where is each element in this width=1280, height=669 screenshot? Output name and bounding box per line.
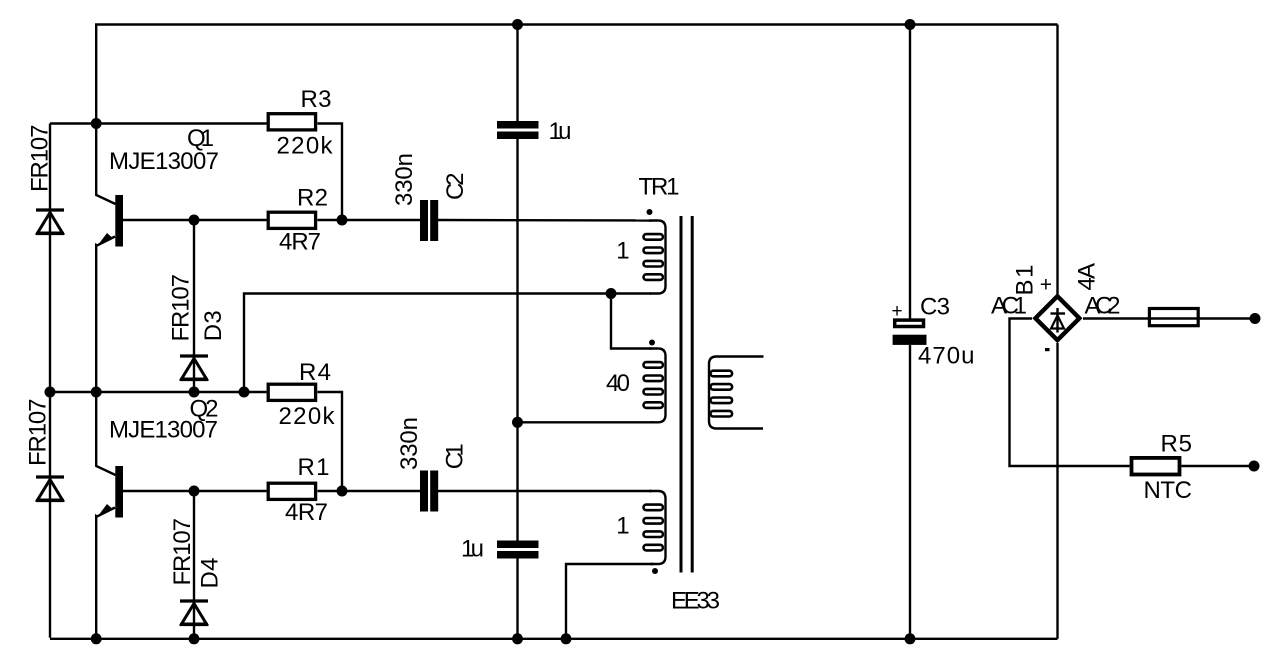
wire Q2 collector vertical	[96, 392, 115, 475]
svg-text:AC2: AC2	[1085, 293, 1121, 320]
wire left diode string vertical	[49, 124, 51, 638]
svg-text:AC1: AC1	[991, 293, 1027, 320]
transistor Q1	[98, 195, 123, 247]
junction R1 / R4	[337, 486, 348, 497]
junction bottom rail / center rail	[512, 633, 523, 644]
svg-text:FR107: FR107	[25, 399, 52, 467]
transformer TR1 winding 1 bottom	[644, 491, 666, 574]
svg-text:C2: C2	[442, 173, 469, 201]
wire R4 left	[244, 391, 267, 393]
junction bottom rail / Q2 emitter	[91, 633, 102, 644]
wire R1 right to C1	[318, 490, 421, 492]
transistor Q2	[98, 466, 123, 518]
wire Q2 emitter vertical	[96, 508, 115, 639]
wire R3 right to R2 right vertical	[318, 124, 343, 221]
junction Q2 base / D4	[189, 486, 200, 497]
wire winding 40 bottom to center rail	[518, 421, 654, 423]
svg-text:R2: R2	[297, 185, 328, 212]
svg-text:TR1: TR1	[639, 174, 680, 201]
wire left vertical to Q1 collector	[96, 24, 115, 205]
svg-text:D4: D4	[197, 558, 224, 589]
svg-text:470u: 470u	[918, 343, 975, 370]
diode D3	[180, 356, 208, 380]
transformer TR1 winding 1 top	[644, 209, 666, 294]
wire R2 right to C2	[318, 219, 421, 221]
svg-text:1: 1	[616, 513, 629, 540]
svg-text:220k: 220k	[277, 133, 334, 160]
junction mid rail / Q2 collector	[91, 387, 102, 398]
terminal dot AC2 output	[1250, 313, 1261, 324]
wire D4 branch vertical	[193, 491, 195, 639]
wire center rail	[516, 25, 518, 122]
junction Q1 base / D3	[189, 215, 200, 226]
svg-text:1u: 1u	[461, 536, 484, 563]
svg-text:220k: 220k	[279, 403, 336, 430]
svg-text:4R7: 4R7	[285, 499, 328, 526]
svg-text:FR107: FR107	[168, 274, 195, 342]
wire top rail	[95, 23, 1058, 25]
junction winding 40 / center rail	[512, 417, 523, 428]
junction mid rail / D3 anode	[189, 387, 200, 398]
transformer TR1 winding 40	[644, 340, 666, 423]
junction primary midpoint	[606, 288, 617, 299]
wire C1 to winding 1 bottom	[438, 490, 652, 492]
wire C3 rail	[909, 25, 911, 319]
junction mid rail / diode string	[45, 387, 56, 398]
junction mid rail / R4 branch	[239, 387, 250, 398]
svg-text:R4: R4	[299, 359, 331, 386]
diode D1 FR107 top-left	[36, 210, 64, 234]
wire primary midpoint horizontal	[244, 294, 651, 393]
junction top rail / C3 rail	[905, 19, 916, 30]
svg-text:40: 40	[606, 370, 630, 397]
resistor R4	[268, 384, 315, 400]
wire Q1 emitter vertical	[96, 237, 115, 393]
diode D4	[180, 601, 208, 625]
svg-text:+: +	[1040, 273, 1052, 296]
transformer TR1 core	[680, 216, 683, 573]
wire D3 branch vertical	[193, 220, 195, 392]
svg-text:1u: 1u	[549, 118, 572, 145]
resistor R2	[268, 212, 315, 228]
wire R4 right vertical to R1 right	[318, 392, 343, 491]
terminal dot R5 output	[1249, 461, 1260, 472]
svg-text:FR107: FR107	[169, 518, 196, 586]
junction R2 / R3	[337, 215, 348, 226]
svg-text:4A: 4A	[1074, 263, 1101, 291]
capacitor 1u top	[497, 121, 539, 129]
svg-text:R1: R1	[298, 454, 330, 481]
svg-text:MJE13007: MJE13007	[109, 417, 218, 444]
wire midpoint to winding 40 top	[611, 294, 652, 349]
junction bottom rail / C3 rail	[905, 633, 916, 644]
wire R5 right	[1182, 465, 1255, 467]
wire winding 1 bottom exit	[566, 564, 653, 639]
capacitor 1u bottom	[497, 541, 539, 549]
svg-text:R5: R5	[1161, 431, 1193, 458]
capacitor C1	[420, 471, 428, 512]
svg-text:330n: 330n	[396, 417, 423, 470]
svg-text:4R7: 4R7	[279, 229, 321, 256]
svg-text:EE33: EE33	[671, 588, 720, 615]
svg-text:MJE13007: MJE13007	[109, 148, 219, 175]
capacitor C2	[420, 200, 428, 241]
resistor R3	[268, 114, 315, 130]
wire bottom rail	[50, 638, 1058, 640]
wire AC2 to fuse terminal	[1083, 317, 1255, 319]
svg-text:+: +	[892, 301, 903, 322]
svg-text:FR107: FR107	[27, 125, 54, 193]
svg-text:D3: D3	[200, 310, 227, 341]
svg-text:C3: C3	[920, 294, 950, 321]
wire mid rail horizontal	[50, 391, 244, 393]
wire Q2 base to R1	[123, 490, 267, 492]
transformer TR1 secondary	[709, 357, 764, 429]
junction bottom rail / D4 anode	[189, 633, 200, 644]
svg-text:1: 1	[616, 238, 629, 265]
junction bottom rail / winding 1 bottom	[561, 633, 572, 644]
svg-text:C1: C1	[442, 443, 469, 469]
fuse F1	[1149, 309, 1198, 326]
svg-text:330n: 330n	[391, 153, 418, 206]
wire Q1 base to R2	[123, 219, 267, 221]
label minus bridge	[1045, 348, 1050, 351]
junction top rail / center rail	[512, 19, 523, 30]
wire AC1 branch	[1010, 319, 1130, 467]
resistor R1	[268, 483, 315, 499]
bridge rectifier B1	[1035, 296, 1079, 340]
wire R3 left	[96, 122, 267, 124]
wire junction-to-diode-string horizontal	[50, 122, 96, 124]
diode D2 FR107 bottom-left	[36, 477, 64, 501]
capacitor C3 electrolytic	[893, 320, 927, 345]
resistor R5 NTC	[1132, 458, 1180, 475]
svg-text:NTC: NTC	[1144, 477, 1193, 504]
wire C2 to winding 1 top	[438, 219, 652, 222]
wire right rail	[1056, 25, 1058, 295]
svg-text:R3: R3	[301, 86, 332, 113]
junction Q1 collector node	[91, 118, 102, 129]
svg-text:B1: B1	[1012, 265, 1039, 296]
